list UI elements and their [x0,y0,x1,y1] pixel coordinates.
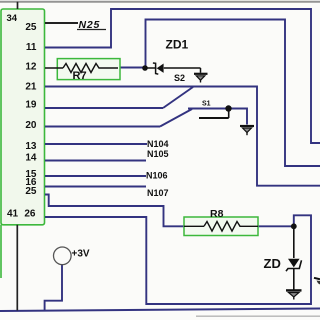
svg-text:S1: S1 [202,100,211,107]
svg-text:N107: N107 [147,188,169,198]
svg-text:N105: N105 [147,149,169,159]
svg-text:N25: N25 [79,19,101,31]
svg-text:34: 34 [7,13,18,24]
svg-text:N104: N104 [147,139,169,149]
svg-text:N106: N106 [146,171,168,181]
svg-text:19: 19 [25,99,37,110]
svg-text:21: 21 [25,81,37,92]
svg-text:41: 41 [7,208,19,219]
svg-text:26: 26 [24,208,36,219]
svg-text:+3V: +3V [72,249,90,260]
svg-text:11: 11 [26,42,37,53]
svg-text:S2: S2 [174,73,185,83]
svg-text:ZD1: ZD1 [166,38,189,52]
svg-text:20: 20 [25,120,37,131]
svg-text:14: 14 [25,153,37,164]
svg-text:12: 12 [25,62,37,73]
svg-text:13: 13 [25,141,37,152]
svg-text:R8: R8 [210,208,224,220]
svg-text:R7: R7 [73,70,87,82]
svg-text:25: 25 [25,22,37,33]
svg-text:ZD: ZD [264,256,281,271]
svg-text:25: 25 [25,186,37,197]
